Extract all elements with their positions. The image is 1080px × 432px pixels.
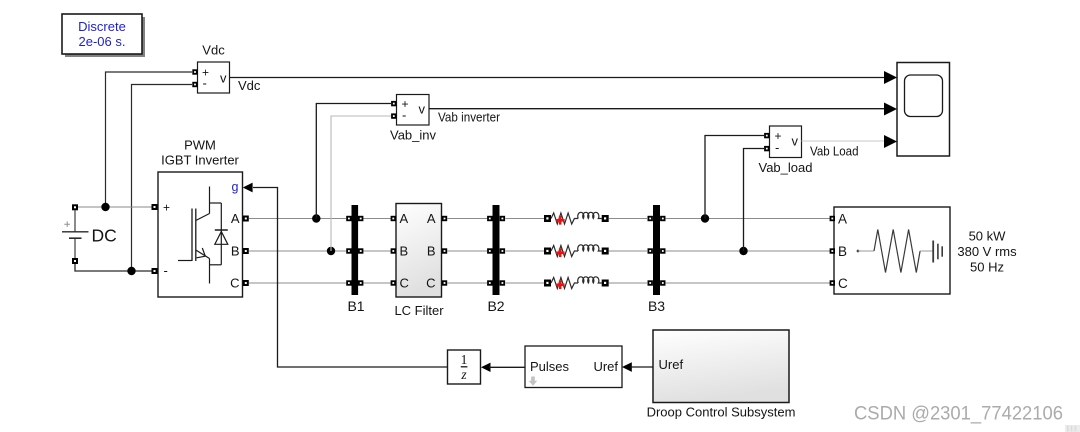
wire phase A: B3 to load xyxy=(666,218,832,220)
bus bar B3 xyxy=(648,205,666,314)
svg-text:DC: DC xyxy=(92,226,117,246)
svg-text:CSDN @2301_77422106: CSDN @2301_77422106 xyxy=(854,403,1063,425)
svg-text:2e-06 s.: 2e-06 s. xyxy=(79,34,126,49)
wire phase A: B1 to LC Filter xyxy=(364,218,391,220)
wire phase B: LC Filter to B2 xyxy=(447,250,487,252)
wire Vab_inv minus tap xyxy=(331,116,391,251)
inverter output port C xyxy=(230,276,249,291)
scope input arrow 1 xyxy=(884,71,897,84)
junction node phase B to Vab_load xyxy=(739,247,747,255)
load rating text xyxy=(957,229,1017,275)
svg-text:C: C xyxy=(426,276,435,291)
svg-text:PWM: PWM xyxy=(184,138,216,153)
pulses subsystem block xyxy=(525,346,632,388)
three-phase load block xyxy=(830,207,950,294)
svg-text:+: + xyxy=(163,201,170,215)
svg-text:v: v xyxy=(792,134,799,149)
svg-text:Uref: Uref xyxy=(593,359,618,374)
sample time block "Discrete 2e-06 s." xyxy=(62,14,145,57)
svg-text:B: B xyxy=(427,244,436,259)
svg-text:Vdc: Vdc xyxy=(238,78,261,93)
svg-text:Vab_load: Vab_load xyxy=(759,160,813,175)
svg-text:50 Hz: 50 Hz xyxy=(970,260,1004,275)
series RL branch phase A xyxy=(544,212,609,224)
svg-text:C: C xyxy=(400,276,409,291)
wire Vab_load plus tap xyxy=(705,136,764,219)
voltage measurement block Vab_inv xyxy=(390,95,437,143)
droop control subsystem block xyxy=(647,330,796,420)
IGBT transistor icon xyxy=(178,187,210,284)
svg-text:B: B xyxy=(400,244,409,259)
bus bar B2 xyxy=(487,205,505,314)
wire phase B: RL branch to B3 xyxy=(609,250,647,252)
DC voltage source xyxy=(62,204,117,264)
svg-text:LC Filter: LC Filter xyxy=(394,303,444,318)
svg-text:B3: B3 xyxy=(648,298,665,314)
wire Vdc minus lead xyxy=(132,85,193,272)
svg-text:-: - xyxy=(402,108,406,123)
inverter output port B xyxy=(231,244,249,259)
svg-text:IGBT Inverter: IGBT Inverter xyxy=(161,153,239,168)
scope input arrow 2 xyxy=(884,103,897,116)
load resistor icon xyxy=(857,230,933,273)
svg-text:A: A xyxy=(400,211,409,226)
signal label Vdc xyxy=(238,78,261,93)
wire Vab_inv output to scope xyxy=(429,108,884,110)
unit delay block 1/z xyxy=(448,350,491,384)
svg-text:B: B xyxy=(231,244,240,259)
wire phase B: B1 to LC Filter xyxy=(364,250,391,252)
wire phase C: RL branch to B3 xyxy=(609,282,647,284)
series RL branch phase C xyxy=(544,277,609,289)
wire Vab_inv plus tap xyxy=(316,104,391,219)
svg-text:v: v xyxy=(419,102,426,117)
bus bar B1 xyxy=(346,205,365,314)
wire Pulses to unit delay xyxy=(489,366,525,368)
junction node on minus rail xyxy=(127,267,135,275)
signal label Vab inverter xyxy=(438,111,500,125)
wire Droop to Pulses xyxy=(631,366,654,368)
svg-text:B2: B2 xyxy=(487,298,504,314)
wire Vab_load minus tap xyxy=(744,149,765,252)
wire phase C: B1 to LC Filter xyxy=(364,282,391,284)
wire DC plus rail xyxy=(78,206,152,208)
voltage measurement block Vdc xyxy=(192,43,229,94)
svg-text:-: - xyxy=(164,263,168,278)
junction node phase A to Vab_load xyxy=(701,214,709,222)
series RL branch phase B xyxy=(544,245,609,257)
svg-text:Vdc: Vdc xyxy=(202,43,225,58)
junction node on plus rail xyxy=(101,203,109,211)
load ground symbol xyxy=(933,241,942,263)
wire Vdc output to scope xyxy=(230,77,885,79)
svg-text:g: g xyxy=(232,180,239,194)
svg-text:A: A xyxy=(838,212,847,227)
wire phase B: B3 to load xyxy=(666,250,832,252)
svg-text:A: A xyxy=(427,211,436,226)
svg-text:B1: B1 xyxy=(347,298,364,314)
wire phase C: B2 to RL branch xyxy=(506,282,545,284)
svg-text:A: A xyxy=(231,211,240,226)
svg-text:C: C xyxy=(838,276,848,291)
svg-text:B: B xyxy=(838,244,847,259)
svg-text:1: 1 xyxy=(461,352,468,367)
antiparallel diode icon xyxy=(210,203,228,265)
LC Filter subsystem xyxy=(391,204,448,319)
watermark xyxy=(854,403,1080,432)
svg-text:Vab inverter: Vab inverter xyxy=(438,111,500,125)
svg-text:Uref: Uref xyxy=(659,357,684,372)
wire phase C: LC Filter to B2 xyxy=(447,282,487,284)
wire phase A: B2 to RL branch xyxy=(506,218,545,220)
svg-text:-: - xyxy=(775,140,779,155)
wire phase B: inverter to B1 xyxy=(249,250,346,252)
wire Vab_load output to scope xyxy=(802,140,885,142)
svg-text:Vab Load: Vab Load xyxy=(810,145,859,159)
svg-text:z: z xyxy=(460,367,467,382)
svg-text:Discrete: Discrete xyxy=(78,19,126,34)
inverter port - xyxy=(152,263,168,278)
wire Vdc plus lead xyxy=(106,72,193,207)
svg-text:Droop Control Subsystem: Droop Control Subsystem xyxy=(647,405,796,420)
wire phase A: inverter to B1 xyxy=(249,218,346,220)
inverter port + xyxy=(152,201,171,215)
svg-text:Pulses: Pulses xyxy=(530,359,570,374)
voltage measurement block Vab_load xyxy=(759,126,813,175)
signal label Vab Load xyxy=(810,145,859,159)
svg-text:-: - xyxy=(203,76,207,91)
wire phase C: inverter to B1 xyxy=(249,282,346,284)
junction node phase B to Vab_inv xyxy=(327,247,335,255)
junction node phase A to Vab_inv xyxy=(312,214,320,222)
svg-text:50 kW: 50 kW xyxy=(969,229,1007,244)
scope input arrow 3 xyxy=(884,135,897,148)
wire phase C: B3 to load xyxy=(666,282,832,284)
inverter gate input g xyxy=(232,180,253,194)
PWM IGBT Inverter block xyxy=(158,138,243,298)
svg-text:Vab_inv: Vab_inv xyxy=(390,128,437,143)
scope block xyxy=(897,63,950,157)
svg-text:C: C xyxy=(230,276,239,291)
wire DC minus rail xyxy=(75,264,152,271)
svg-text:380 V rms: 380 V rms xyxy=(957,244,1017,259)
inverter output port A xyxy=(231,211,249,226)
wire gate feedback: unit delay to inverter g xyxy=(253,188,448,368)
wire phase A: RL branch to B3 xyxy=(609,218,647,220)
wire phase B: B2 to RL branch xyxy=(506,250,545,252)
svg-text:v: v xyxy=(220,71,227,86)
wire phase A: LC Filter to B2 xyxy=(447,218,487,220)
